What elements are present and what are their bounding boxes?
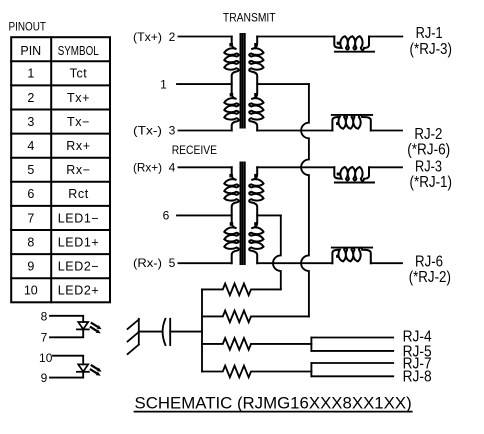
svg-text:SYMBOL: SYMBOL	[58, 44, 99, 58]
svg-text:PINOUT: PINOUT	[9, 20, 47, 34]
T2 primary polarity dot lower	[230, 222, 234, 226]
wire choke L1 to RJ-1	[369, 36, 402, 38]
svg-text:8: 8	[27, 235, 34, 249]
T2 secondary polarity dot lower	[254, 222, 258, 226]
transformer T2 secondary winding	[249, 167, 263, 263]
T1 primary polarity dot upper	[229, 43, 233, 47]
wire choke L4 to RJ-6	[371, 262, 402, 264]
svg-text:4: 4	[27, 139, 34, 153]
wire T2 secondary bottom to choke L4	[257, 262, 332, 264]
wire pin 5 to T2	[179, 262, 232, 264]
wire to RJ-4	[311, 337, 393, 339]
svg-text:SCHEMATIC (RJMG16XXX8XX1XX): SCHEMATIC (RJMG16XXX8XX1XX)	[135, 394, 412, 413]
choke L2	[332, 115, 370, 131]
svg-text:RJ-2: RJ-2	[414, 126, 442, 143]
LED D1	[50, 316, 83, 322]
svg-text:(*RJ-2): (*RJ-2)	[409, 269, 451, 286]
bus from T1 center tap with wire hops	[301, 84, 309, 316]
svg-text:PIN: PIN	[20, 44, 41, 58]
svg-text:10: 10	[39, 351, 53, 365]
transformer T1 secondary winding	[249, 37, 263, 131]
svg-text:(*RJ-1): (*RJ-1)	[410, 174, 453, 191]
svg-text:6: 6	[27, 187, 34, 201]
svg-text:(Rx+): (Rx+)	[133, 161, 162, 175]
svg-text:7: 7	[27, 211, 34, 225]
bus from T2 center tap with wire hop	[273, 215, 281, 289]
fork node RJ-7/RJ-8	[310, 363, 312, 376]
svg-text:Tx−: Tx−	[67, 115, 90, 129]
svg-text:1: 1	[160, 77, 167, 91]
wire choke L2 to RJ-2	[371, 130, 402, 132]
wire to RJ-5	[311, 350, 393, 352]
svg-text:(Tx-): (Tx-)	[133, 123, 162, 137]
svg-text:Tx+: Tx+	[67, 91, 90, 105]
svg-text:5: 5	[27, 163, 34, 177]
svg-text:3: 3	[169, 123, 176, 137]
T2 secondary polarity dot upper	[254, 174, 258, 178]
wire T2 secondary top to choke L3	[257, 166, 334, 168]
svg-text:(Tx+): (Tx+)	[133, 30, 162, 44]
svg-text:2: 2	[27, 91, 34, 105]
title underline	[135, 411, 412, 413]
fork node RJ-4/RJ-5	[310, 338, 312, 351]
svg-text:Rct: Rct	[68, 187, 89, 201]
resistor R1	[202, 284, 281, 296]
wire choke L3 to RJ-3	[369, 166, 402, 168]
transformer T1 primary winding	[224, 37, 238, 131]
svg-text:RJ-6: RJ-6	[415, 253, 443, 270]
wire to RJ-8	[311, 375, 393, 377]
svg-text:TRANSMIT: TRANSMIT	[223, 11, 276, 25]
pinout table frame	[11, 37, 110, 302]
svg-text:10: 10	[24, 284, 38, 298]
resistor R3	[202, 338, 311, 350]
svg-text:3: 3	[27, 115, 34, 129]
svg-text:LED2+: LED2+	[58, 284, 100, 298]
svg-text:7: 7	[41, 331, 48, 345]
T2 primary polarity dot upper	[229, 174, 233, 178]
svg-text:Rx−: Rx−	[66, 163, 90, 177]
svg-text:9: 9	[41, 371, 48, 385]
transformer T1 core	[240, 34, 242, 128]
svg-text:RJ-1: RJ-1	[416, 25, 443, 42]
svg-text:Tct: Tct	[70, 67, 88, 81]
chassis ground	[138, 319, 140, 345]
transformer T2 primary winding	[224, 167, 238, 263]
LED D2	[53, 356, 83, 365]
choke L1	[334, 36, 369, 50]
wire T1 secondary top to choke L1	[257, 36, 334, 38]
svg-text:4: 4	[169, 161, 176, 175]
svg-text:8: 8	[41, 310, 48, 324]
svg-text:LED1+: LED1+	[58, 235, 100, 249]
T1 primary polarity dot lower	[230, 93, 234, 97]
svg-text:(*RJ-3): (*RJ-3)	[410, 41, 453, 58]
svg-text:RJ-8: RJ-8	[403, 368, 432, 385]
transformer T2 core	[240, 163, 242, 265]
svg-text:(*RJ-6): (*RJ-6)	[407, 142, 450, 159]
svg-text:LED2−: LED2−	[58, 260, 100, 274]
wire pin 4 to T2	[179, 166, 232, 168]
wire pin 6 center tap	[177, 214, 232, 216]
wire T1 center tap to bus	[257, 83, 309, 85]
left rail joining resistors	[201, 289, 203, 371]
wire pin 3 to T1	[179, 130, 232, 132]
svg-text:2: 2	[169, 30, 176, 44]
capacitor C1	[163, 319, 166, 345]
wire ground to capacitor C1	[139, 331, 162, 333]
wire pin 1 center tap	[177, 83, 232, 85]
svg-text:6: 6	[163, 209, 170, 223]
T1 secondary polarity dot lower	[254, 93, 258, 97]
svg-text:9: 9	[27, 260, 34, 274]
wire T1 secondary bottom to choke L2	[257, 130, 332, 132]
wire capacitor C1 to rail	[170, 331, 202, 333]
wire T2 center tap to bus	[257, 214, 281, 216]
wire pin 2 to T1	[179, 36, 232, 38]
wire to RJ-7	[311, 362, 393, 364]
svg-text:LED1−: LED1−	[58, 211, 100, 225]
choke L3	[334, 167, 369, 181]
resistor R2	[202, 311, 309, 323]
svg-text:1: 1	[27, 67, 34, 81]
svg-text:Rx+: Rx+	[66, 139, 90, 153]
svg-text:5: 5	[169, 256, 176, 270]
choke L4	[332, 248, 370, 264]
T1 secondary polarity dot upper	[254, 43, 258, 47]
resistor R4	[202, 366, 311, 378]
svg-text:(Rx-): (Rx-)	[133, 256, 162, 270]
svg-text:RECEIVE: RECEIVE	[172, 143, 217, 157]
